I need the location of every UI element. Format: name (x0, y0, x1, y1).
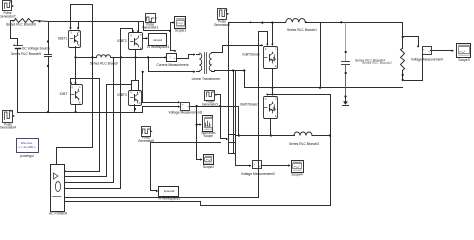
wire ac bus B (65, 136, 331, 206)
svg-text:IGBT1: IGBT1 (58, 37, 68, 41)
scope Scope1 (175, 17, 186, 29)
DC voltage source V1 (14, 45, 23, 47)
wire IGBT second gate stub (70, 79, 72, 84)
svg-text:Scope1: Scope1 (175, 29, 186, 33)
node rail-cap (47, 111, 49, 113)
capacitor Series RLC Branch4 (345, 23, 347, 62)
block powergui (17, 139, 39, 153)
pulse generator Pulse Generator7 (3, 1, 12, 11)
wire gate mesh x92 hook (57, 148, 93, 164)
svg-text:Scope: Scope (204, 134, 214, 138)
wire right rail (229, 22, 403, 24)
wire IGBT2 emitter (135, 51, 137, 58)
svg-text:Generator4: Generator4 (0, 126, 16, 130)
wire collector net to current measurement (76, 57, 97, 59)
svg-text:IGBT/Diode1: IGBT/Diode1 (240, 102, 259, 106)
wire rail right corner (403, 23, 419, 47)
wire VM2 to scope4 (262, 165, 290, 167)
wire branch3 net (237, 135, 295, 137)
block To Workspace1 (149, 34, 167, 46)
wire IGBT1 gate loop (71, 5, 93, 148)
scope Spectrum Scope (203, 116, 213, 132)
resistor Series RLC Branch6 (13, 20, 15, 22)
node branch3 right (329, 134, 331, 136)
svg-text:Series RLC Branch2: Series RLC Branch2 (362, 61, 392, 65)
svg-text:Scope4: Scope4 (291, 172, 302, 176)
inductor Series RLC Branch1 (286, 19, 306, 23)
wire scope1 feed (140, 22, 174, 31)
pulse generator Pulse Generator2 (218, 9, 227, 20)
scope Scope3 (457, 44, 471, 58)
svg-text:DC Voltage Source: DC Voltage Source (22, 46, 50, 50)
wire IGBT2 gate loop (65, 29, 133, 189)
block To Workspace2 (159, 187, 179, 197)
wire vm minus loop (403, 55, 423, 81)
junction node rail-resistor (38, 20, 40, 22)
wire cm to transformer (177, 55, 195, 59)
svg-text:Generator7: Generator7 (0, 14, 16, 18)
wire ac port1 (64, 170, 67, 172)
wire ac gate bus A (65, 32, 259, 198)
svg-text:s = 2e-005 s: s = 2e-005 s (18, 145, 36, 149)
svg-text:Scope2: Scope2 (203, 165, 214, 169)
wire PG3 to block (216, 95, 227, 139)
svg-text:Current Measurement: Current Measurement (156, 63, 188, 67)
voltmeter Voltage Measurement2 (253, 161, 262, 169)
wire igbtd emitter (272, 69, 274, 95)
wire net 87 (245, 87, 403, 89)
wire DC source to bottom rail (17, 49, 19, 113)
svg-text:Voltage Measurement1: Voltage Measurement1 (169, 111, 203, 115)
wire VM1 to scope2 (197, 159, 202, 161)
wire top rail left (11, 21, 139, 22)
transistor IGBT/Diode (264, 47, 278, 69)
svg-text:Linear Transformer: Linear Transformer (192, 77, 222, 81)
svg-text:-: - (423, 52, 424, 56)
wire transformer lower right (215, 71, 245, 166)
wire igbtd collector (272, 23, 274, 45)
wire IGBT2 out to workspace (143, 38, 147, 40)
svg-text:Generator2: Generator2 (214, 23, 230, 27)
node rail-igbt (75, 111, 77, 113)
wire PG5 to workspace2 (151, 143, 221, 191)
wire IGBT1 emitter chain (75, 47, 77, 84)
transistor IGBT/Diode1 (264, 97, 278, 119)
block AC POWER source (51, 165, 65, 212)
transformer Linear Transformer (197, 55, 200, 72)
pulse generator Pulse Generator4 (3, 111, 13, 123)
wire IGBT bottom (75, 105, 77, 113)
wire PG2 down (229, 23, 236, 154)
svg-text:Generator3: Generator3 (202, 103, 218, 107)
svg-text:-: - (254, 166, 255, 170)
wire gate mesh x99 (65, 79, 100, 172)
wire VM1 to spectrum scope (197, 107, 201, 160)
wire IGBT1 gate arrow (69, 27, 71, 29)
wire gate mesh x113 (65, 58, 114, 183)
voltmeter Voltage Measurement1 (181, 103, 190, 111)
scope Scope2 (204, 155, 214, 165)
svg-text:IGBT2: IGBT2 (117, 39, 127, 43)
svg-text:IGBT/Diode: IGBT/Diode (242, 52, 259, 56)
svg-text:Voltage Measurement2: Voltage Measurement2 (241, 172, 275, 176)
svg-text:Series RLC Branch: Series RLC Branch (90, 61, 118, 65)
pulse generator Pulse Generator3 (205, 91, 215, 101)
pulse generator Pulse Generator5 (142, 127, 151, 137)
svg-text:IGBT3: IGBT3 (117, 93, 127, 97)
wire gate mesh x106 (65, 85, 107, 177)
transistor IGBT3 (129, 91, 142, 106)
scope Scope4 (292, 161, 304, 173)
svg-text:Scope3: Scope3 (458, 58, 469, 62)
wire IGBT3 gate feed (132, 58, 139, 92)
capacitor Series RLC Branch5 (48, 22, 50, 55)
wire igbtd1 emitter (270, 119, 272, 136)
svg-text:Series RLC Branch3: Series RLC Branch3 (289, 142, 319, 146)
transistor IGBT1 (69, 31, 81, 48)
pulse generator Pulse Generator1 (146, 14, 156, 23)
wire gate mesh igbt3 feed (107, 84, 132, 86)
ground (344, 95, 346, 97)
svg-text:simout: simout (153, 38, 162, 42)
wire VM2 plus feed (236, 165, 251, 167)
node right rail b (261, 22, 263, 24)
node cap bottom (47, 65, 49, 67)
transistor IGBT (71, 85, 83, 105)
svg-text:To Workspace1: To Workspace1 (147, 45, 170, 49)
svg-text:Voltage Measurement: Voltage Measurement (411, 58, 443, 62)
node cap top (47, 40, 49, 42)
wire VM1 out bus (191, 107, 239, 136)
svg-text:Generator1: Generator1 (142, 26, 158, 30)
wire elbow to transformer lower (149, 58, 195, 72)
wire transformer upper right (215, 46, 263, 53)
wire transformer to VM1 plus (143, 72, 179, 103)
block small scope B9 (229, 135, 236, 143)
wire bus A overlay (258, 161, 260, 170)
node right rail c (340, 21, 342, 23)
inductor Series RLC Branch4m (97, 55, 111, 58)
resistor Series RLC Branch2v (402, 37, 404, 49)
wire IGBT3 bottom (134, 105, 136, 113)
svg-text:simout2: simout2 (164, 189, 175, 193)
svg-text:AC POWER: AC POWER (49, 212, 68, 216)
wire left hook down (11, 21, 18, 46)
wire IGBT1 collector stub (78, 22, 80, 29)
block Current Measurement (167, 54, 177, 62)
svg-text:+: + (13, 42, 15, 46)
svg-text:Series RLC Branch1: Series RLC Branch1 (287, 28, 317, 32)
ground rail bottom (18, 112, 143, 114)
svg-text:IGBT: IGBT (60, 92, 68, 96)
wire cm top feed (171, 31, 175, 51)
svg-text:powergui: powergui (20, 154, 34, 158)
wire x320 drop (320, 23, 322, 88)
wire vm to scope3 (431, 50, 453, 52)
svg-text:Series RLC Branch5: Series RLC Branch5 (11, 52, 41, 56)
wire rail corner to IGBT2 (138, 22, 140, 32)
wire igbtd1 gate (268, 95, 331, 136)
wire igbtd gate loop (259, 32, 268, 45)
wire rail to VM1 minus (143, 107, 179, 113)
transistor IGBT2 (129, 33, 143, 50)
voltmeter Voltage Measurement (423, 47, 432, 55)
